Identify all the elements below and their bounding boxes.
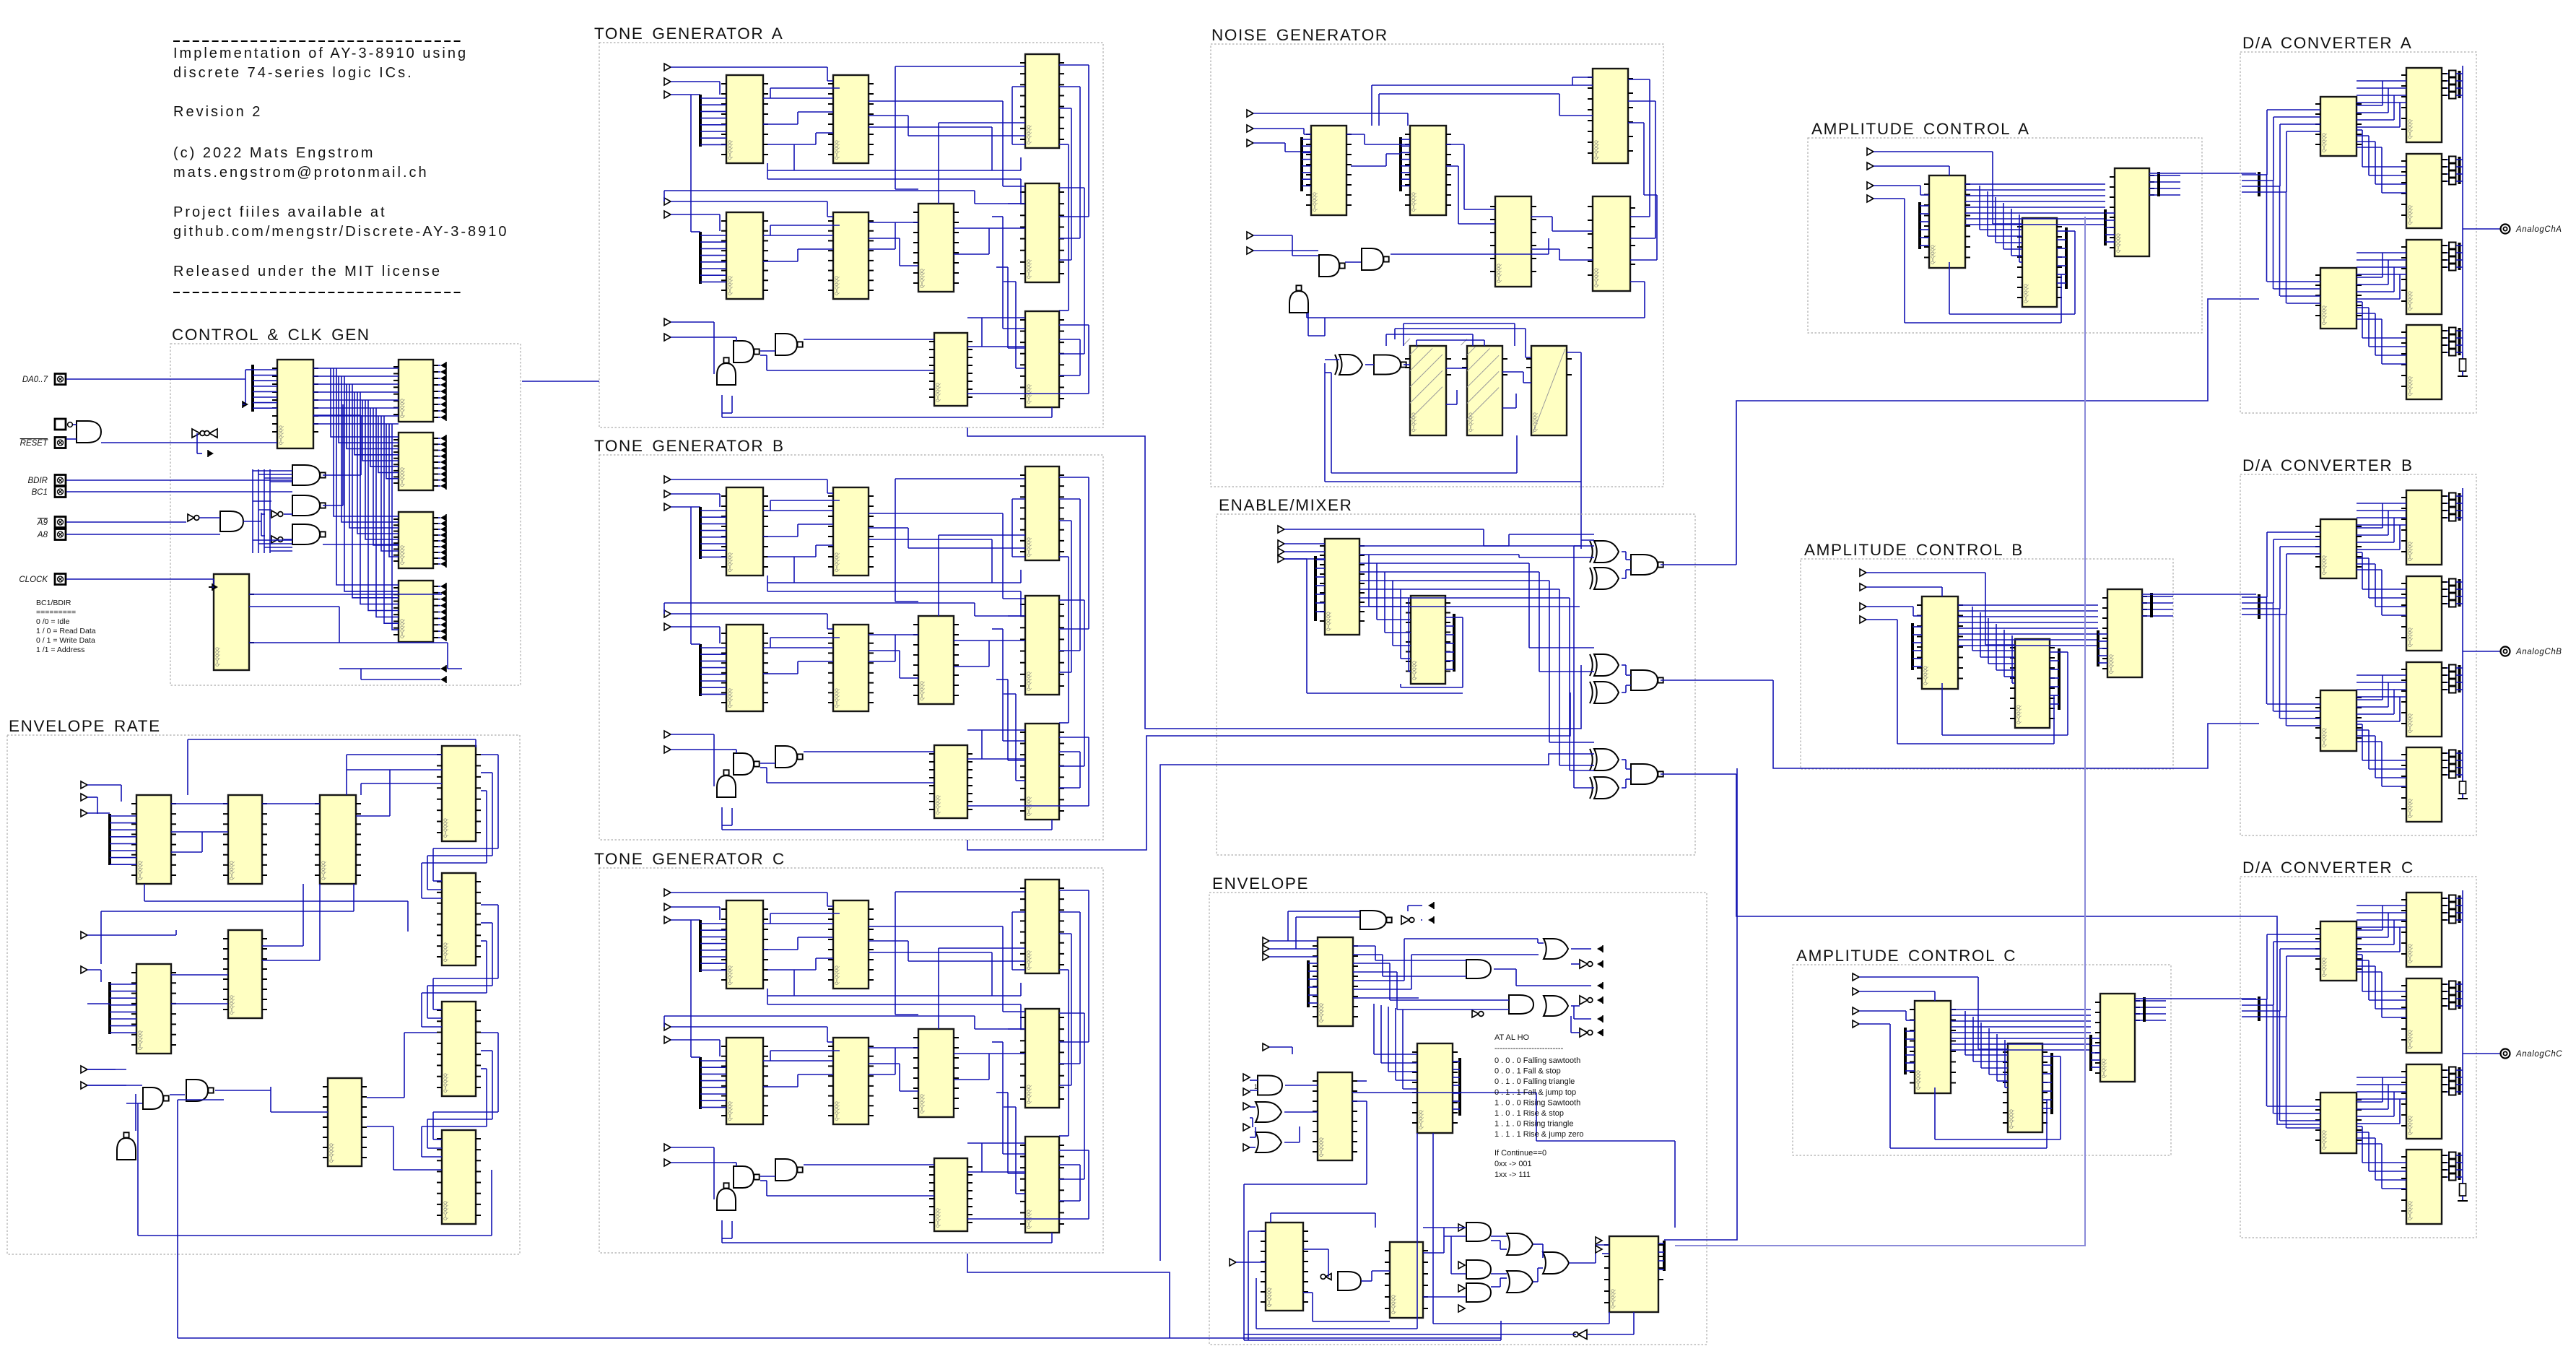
wire — [135, 1094, 136, 1131]
wire — [245, 379, 246, 404]
wire bus fan — [253, 386, 277, 387]
wire m1-m2 — [1368, 555, 1370, 607]
wire bus-down — [2266, 175, 2268, 282]
wire — [438, 552, 440, 553]
wire — [815, 133, 817, 144]
wire — [1303, 1292, 1313, 1293]
wire — [713, 322, 715, 374]
wire t1-t2 — [763, 923, 833, 924]
AND gate b2 — [1466, 1260, 1491, 1279]
wire — [2456, 159, 2463, 160]
wire — [1444, 1236, 1466, 1237]
wire outer4 — [1059, 324, 1089, 326]
wire — [1453, 1085, 1460, 1086]
wire bottom2 — [1256, 1328, 1417, 1329]
wire e5 out1 — [1423, 1227, 1466, 1228]
input arrow — [1278, 540, 1284, 547]
wire long2 — [664, 1015, 975, 1017]
wire grid to reg — [384, 416, 399, 623]
wire — [1325, 372, 1331, 373]
wire — [2286, 725, 2320, 726]
wire u1 to reg — [313, 375, 399, 377]
wire — [2447, 667, 2449, 669]
wire — [261, 513, 262, 536]
wire grid to reg — [349, 384, 399, 528]
wire — [2042, 1108, 2052, 1109]
wire — [2447, 352, 2449, 353]
IC T8A — [1020, 311, 1064, 407]
wire e1 out — [1353, 963, 1390, 964]
wire — [2447, 1169, 2449, 1171]
square terminator — [2449, 895, 2456, 902]
wire BDIR — [66, 479, 292, 481]
wire long feedback down — [177, 1100, 178, 1338]
wire — [2456, 1005, 2463, 1007]
wire a1-a2 — [1972, 1017, 1974, 1061]
IC T2A — [828, 75, 874, 163]
wire — [722, 412, 732, 414]
wire fan — [1905, 1070, 1915, 1072]
wire — [663, 191, 665, 201]
wire and-e3 — [1285, 1085, 1318, 1086]
wire n1-n2 — [1346, 134, 1365, 135]
wire — [2042, 1056, 2052, 1057]
IC E4 — [1261, 1223, 1308, 1311]
wire down — [1904, 199, 1905, 323]
NAND gate vertical noise — [1289, 285, 1308, 313]
wire — [2280, 546, 2320, 547]
wire — [1549, 581, 1550, 742]
wire — [2280, 718, 2320, 719]
wire — [475, 739, 477, 747]
wire — [2456, 252, 2463, 253]
wire m1 out — [1359, 597, 1570, 599]
wire — [2042, 1090, 2052, 1092]
terminator arrow — [440, 628, 446, 635]
IC DR4A — [2401, 325, 2447, 399]
wire nest3 — [1015, 694, 1017, 781]
wire — [1628, 122, 1644, 123]
wire — [438, 557, 440, 559]
wire fan — [110, 857, 136, 859]
IC U5 reg — [393, 512, 438, 568]
wire a1-a2 — [1996, 1034, 1998, 1081]
svg-text:Q=QQQQ: Q=QQQQ — [2102, 1059, 2107, 1078]
wire fan — [1302, 139, 1311, 140]
wire fan — [1315, 559, 1325, 560]
wire fan — [700, 261, 726, 263]
wire outer3 — [1059, 520, 1071, 521]
wire — [2357, 563, 2375, 565]
resistor — [2458, 353, 2468, 376]
wire — [731, 396, 733, 413]
wire — [2447, 166, 2449, 168]
terminator arrow — [440, 414, 446, 421]
input arrow — [1853, 973, 1859, 981]
svg-text:--------------------------: -------------------------- — [1494, 1044, 1564, 1053]
wire — [1003, 598, 1025, 599]
wire fan — [2091, 1059, 2100, 1061]
wire — [996, 266, 1008, 268]
wire — [448, 668, 462, 669]
wire — [2393, 518, 2395, 542]
terminator arrow — [440, 596, 446, 603]
wire in5 — [1253, 250, 1318, 251]
wire — [1625, 760, 1627, 769]
wire — [1004, 1106, 1016, 1108]
wire — [313, 414, 361, 416]
wire fan — [110, 984, 136, 985]
wire — [1365, 144, 1410, 145]
wire — [2357, 937, 2388, 938]
wire — [2456, 589, 2463, 590]
wire bus-up — [2273, 539, 2274, 603]
wire — [1514, 324, 1515, 346]
wire — [432, 978, 434, 1010]
svg-text:Q=QQQQ: Q=QQQQ — [921, 269, 925, 288]
section frame D/A CONVERTER A — [2240, 52, 2476, 413]
wire — [2447, 1084, 2449, 1085]
wire a1 out — [1951, 1049, 2091, 1051]
wire — [421, 993, 422, 1027]
wire — [767, 995, 794, 997]
wire — [974, 1016, 975, 1029]
wire — [2357, 944, 2394, 945]
wire nest1 — [1002, 217, 1004, 329]
wire l2-r4 — [2381, 1144, 2383, 1189]
svg-text:AMPLITUDE CONTROL A: AMPLITUDE CONTROL A — [1811, 120, 2030, 138]
wire — [1244, 1184, 1367, 1185]
wire in3 — [671, 94, 700, 95]
square terminator — [2449, 665, 2456, 672]
wire — [433, 978, 498, 979]
IC ER2 — [223, 795, 267, 884]
wire — [900, 677, 918, 679]
wire in2 — [1253, 128, 1304, 129]
wire — [261, 513, 265, 515]
wire — [1404, 323, 1515, 324]
wire — [2399, 274, 2401, 299]
wire — [2286, 303, 2320, 304]
input arrow — [664, 623, 671, 630]
square terminator — [2449, 1003, 2456, 1010]
square terminator — [2449, 500, 2456, 507]
wire — [2053, 695, 2055, 744]
wire fan — [1308, 971, 1318, 972]
wire — [793, 144, 795, 170]
wire — [2456, 667, 2463, 669]
wire — [2447, 1162, 2449, 1163]
AND gate reset — [77, 421, 101, 443]
wire grid to reg — [334, 368, 399, 516]
wire fan — [700, 255, 726, 256]
NAND gate 2 C — [775, 1159, 803, 1181]
wire — [1533, 1281, 1538, 1282]
wire — [1644, 282, 1645, 318]
wire — [1655, 101, 1656, 238]
wire long1 — [767, 1004, 1021, 1005]
wire — [433, 848, 498, 849]
wire — [171, 851, 202, 853]
wire fan — [1913, 650, 1922, 651]
wire nand3 out — [323, 544, 399, 545]
wire outer5 — [1059, 751, 1080, 752]
wire — [992, 1041, 1003, 1043]
terminator bar — [2458, 579, 2461, 607]
wire — [1003, 186, 1025, 187]
terminator arrow — [440, 381, 446, 388]
wire in1 — [671, 892, 827, 893]
wire dac in — [2242, 186, 2259, 187]
wire mix out C — [1661, 773, 1736, 775]
wire fan — [700, 550, 726, 551]
input arrow — [1867, 195, 1874, 202]
wire — [1445, 617, 1454, 618]
svg-text:Q=QQQQ: Q=QQQQ — [1419, 1110, 1424, 1129]
wire — [2375, 1179, 2406, 1181]
wire — [2357, 119, 2394, 121]
IC DR3B — [2401, 662, 2447, 737]
wire — [1552, 230, 1593, 232]
wire — [481, 940, 487, 942]
wire l1-r2 — [2362, 130, 2363, 167]
wire fan — [700, 956, 726, 958]
pin bus — [1663, 1241, 1666, 1271]
svg-text:Q=QQQQ: Q=QQQQ — [401, 399, 405, 418]
wire — [1397, 1009, 1509, 1010]
wire gate feed — [258, 469, 259, 553]
wire t6-t7 — [954, 640, 1025, 641]
wire — [438, 529, 440, 530]
wire arrow7 lead — [87, 1085, 126, 1086]
IC T9C — [929, 1158, 972, 1231]
wire — [1905, 1011, 1907, 1020]
wire — [2447, 898, 2449, 899]
wire — [1989, 1074, 2008, 1075]
wire — [663, 603, 665, 614]
wire fan — [2091, 1052, 2100, 1054]
wire a1 out — [1958, 622, 2098, 623]
input arrow — [1860, 616, 1866, 623]
input arrow — [1243, 1124, 1250, 1131]
wire — [2259, 602, 2273, 604]
svg-text:NOISE GENERATOR: NOISE GENERATOR — [1211, 26, 1388, 44]
wire — [438, 365, 440, 366]
terminator arrow — [440, 589, 446, 596]
wire — [1630, 238, 1655, 239]
wire a1 out — [1958, 639, 2098, 641]
wire — [2447, 774, 2449, 776]
input pin DA0..7 — [55, 374, 66, 385]
wire bus fan — [253, 369, 277, 370]
wire — [2259, 614, 2286, 615]
wire — [2357, 954, 2362, 955]
pin bus — [2097, 630, 2099, 667]
IC T4B — [721, 625, 768, 711]
wire — [2357, 147, 2382, 148]
svg-text:Q=QQQQ: Q=QQQQ — [835, 1101, 840, 1121]
IC A3B — [2102, 589, 2147, 677]
svg-text:Q=QQQQ: Q=QQQQ — [1924, 666, 1928, 685]
wire — [1389, 963, 1391, 1000]
wire vert — [1011, 87, 1013, 144]
wire bottom — [1905, 322, 2061, 324]
wire bus-down — [2273, 181, 2274, 289]
wire — [2273, 941, 2320, 942]
wire — [1308, 335, 1325, 337]
wire bus fan — [253, 375, 277, 376]
wire grid to reg — [386, 424, 399, 479]
input arrow — [1867, 148, 1874, 155]
wire — [1250, 1147, 1256, 1148]
wire — [1446, 165, 1458, 167]
wire — [1403, 1088, 1417, 1090]
wire — [767, 556, 816, 557]
input arrow — [1243, 1103, 1250, 1110]
wire — [2456, 166, 2463, 168]
input arrow — [1458, 1262, 1465, 1269]
wire — [196, 433, 198, 453]
wire — [827, 492, 833, 494]
wire — [2447, 581, 2449, 583]
wire gate feed h — [270, 481, 292, 482]
wire — [1941, 683, 1943, 735]
wire — [895, 601, 918, 602]
wire nest2 — [1007, 267, 1009, 348]
square terminator — [2449, 750, 2456, 757]
wire fan — [700, 118, 726, 119]
svg-text:Q=QQQQ: Q=QQQQ — [444, 1073, 448, 1093]
wire — [1386, 153, 1401, 155]
wire t3 in2 — [939, 947, 1025, 949]
wire — [433, 1009, 442, 1010]
wire to DAC — [2142, 594, 2256, 595]
wire — [1484, 340, 1485, 346]
wire — [1296, 916, 1360, 918]
svg-text:Q=QQQQ: Q=QQQQ — [2409, 542, 2413, 561]
NAND gate 1 A — [734, 341, 760, 362]
wire — [1372, 1270, 1390, 1272]
wire t3 in — [895, 478, 1025, 479]
wire a3 out — [2149, 181, 2180, 183]
svg-text:Q=QQQQ: Q=QQQQ — [2409, 944, 2413, 963]
wire — [2447, 919, 2449, 921]
wire grid to reg — [347, 384, 399, 449]
wire — [1079, 87, 1081, 238]
wire — [794, 995, 992, 997]
wire — [2447, 80, 2449, 82]
wire — [767, 163, 768, 179]
wire — [1992, 152, 1993, 224]
wire fan — [110, 1018, 136, 1020]
wire stair2 — [1386, 334, 1473, 335]
svg-text:1 . 0 . 1 Rise & stop: 1 . 0 . 1 Rise & stop — [1494, 1109, 1564, 1118]
wire — [2456, 1077, 2463, 1078]
wire — [736, 1163, 737, 1166]
wire right loop — [1628, 79, 1650, 80]
wire — [2057, 230, 2066, 232]
wire — [1483, 529, 1484, 546]
wire — [1552, 217, 1553, 231]
wire — [438, 540, 440, 542]
wire — [2357, 291, 2394, 292]
wire — [2052, 1056, 2061, 1057]
wire extra1 — [770, 87, 840, 89]
wire — [2259, 596, 2267, 598]
wire — [992, 582, 1021, 583]
wire — [2357, 284, 2388, 285]
AND gate b3 — [1466, 1283, 1491, 1302]
wire — [492, 773, 493, 856]
wire m1-m2 — [1392, 581, 1393, 646]
wire — [1491, 1286, 1500, 1288]
wire — [2273, 116, 2320, 118]
wire — [2456, 1169, 2463, 1171]
square terminator — [2449, 257, 2456, 264]
wire — [2456, 80, 2463, 82]
wire a1-a2 — [2019, 214, 2020, 262]
input arrow — [664, 1144, 671, 1151]
wire — [2019, 261, 2022, 263]
wire — [2447, 1069, 2449, 1071]
wire — [1433, 1323, 1609, 1324]
terminator arrow — [440, 549, 446, 556]
wire — [1059, 787, 1080, 789]
input arrow — [1278, 555, 1284, 563]
wire — [996, 679, 1008, 680]
wire mixA to DAC A — [1736, 299, 2259, 565]
IC T6C — [913, 1029, 959, 1117]
wire — [1378, 94, 1380, 126]
input arrow — [664, 211, 671, 218]
wire — [2357, 534, 2388, 536]
wire — [1533, 1243, 1543, 1245]
wire a1 out — [1958, 616, 2098, 617]
wire e1 out — [1353, 954, 1383, 955]
wire fb inner — [1331, 373, 1332, 473]
wire — [1020, 157, 1022, 170]
wire in5 — [671, 214, 720, 215]
input arrow — [1247, 232, 1253, 239]
svg-text:AnalogChC: AnalogChC — [2515, 1050, 2562, 1059]
input arrow — [1596, 1237, 1602, 1244]
terminator arrow — [440, 447, 446, 454]
wire — [967, 317, 982, 318]
wire or2 out — [1571, 1032, 1580, 1033]
wire — [1292, 255, 1318, 256]
output connector AnalogChC — [2501, 1049, 2563, 1059]
terminator arrow — [440, 531, 446, 539]
wire bottom arrow — [339, 668, 440, 669]
wire to DAC — [2149, 173, 2256, 174]
AND gate addr — [220, 511, 243, 531]
wire noise in — [1580, 540, 1582, 549]
wire — [1549, 742, 1594, 743]
wire fan — [1920, 221, 1929, 222]
wire er9 in — [271, 1111, 328, 1113]
NAND gate 2 A — [775, 334, 803, 355]
wire in6 — [671, 1147, 714, 1148]
wire l1-r2 — [2368, 558, 2370, 598]
wire l2-r3 — [2357, 274, 2406, 275]
square terminator — [2449, 672, 2456, 679]
wire — [1404, 939, 1405, 981]
hatch N6 — [1404, 339, 1443, 420]
wire — [1003, 1153, 1025, 1155]
wire output rail — [2462, 890, 2463, 1200]
IC N1 — [1306, 126, 1352, 215]
square terminator — [2449, 157, 2456, 163]
